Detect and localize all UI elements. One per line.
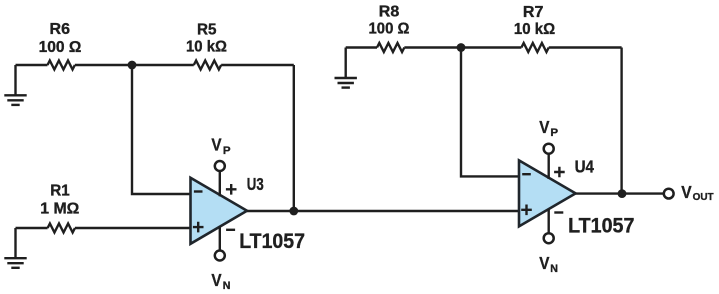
ground [335, 48, 357, 88]
node D [618, 189, 627, 198]
wire [132, 65, 191, 194]
svg-text:U3: U3 [247, 174, 264, 194]
svg-text:LT1057: LT1057 [568, 214, 634, 237]
svg-text:N: N [550, 263, 558, 275]
node C [457, 43, 466, 52]
wire [16, 227, 48, 229]
wire [549, 46, 622, 48]
svg-text:V: V [681, 182, 692, 202]
wire [221, 64, 294, 66]
wire [620, 48, 622, 194]
VP pin (U4) [539, 117, 558, 179]
resistor R7 [514, 4, 555, 52]
wire [346, 46, 377, 48]
resistor R6 [39, 21, 82, 70]
resistor R1 [40, 183, 79, 233]
svg-text:100 Ω: 100 Ω [39, 39, 82, 56]
svg-text:P: P [550, 127, 558, 139]
svg-text:100 Ω: 100 Ω [369, 20, 410, 37]
op-amp U4 [519, 157, 634, 238]
node B [289, 207, 298, 216]
wire [461, 48, 519, 177]
wire [247, 210, 519, 212]
svg-text:R8: R8 [379, 3, 400, 20]
VP pin (U3) [211, 135, 230, 197]
VN pin (U4) [539, 209, 558, 275]
node A [128, 61, 137, 70]
output terminal VOUT [664, 182, 714, 203]
svg-text:10 kΩ: 10 kΩ [186, 39, 227, 56]
svg-text:R6: R6 [50, 21, 71, 38]
wire [404, 46, 521, 48]
wire [293, 65, 295, 211]
svg-text:R1: R1 [50, 183, 70, 200]
ground [4, 228, 26, 268]
ground [4, 65, 26, 105]
wire [576, 192, 664, 194]
svg-text:10 kΩ: 10 kΩ [514, 21, 555, 38]
wire [75, 64, 194, 66]
resistor R5 [186, 22, 227, 70]
svg-text:N: N [223, 280, 231, 292]
wire [75, 227, 191, 229]
svg-text:LT1057: LT1057 [239, 230, 305, 253]
svg-text:U4: U4 [575, 157, 595, 177]
svg-text:V: V [211, 135, 221, 155]
svg-text:R5: R5 [197, 22, 217, 39]
svg-text:P: P [223, 145, 231, 157]
svg-text:OUT: OUT [693, 191, 715, 203]
svg-text:V: V [539, 117, 549, 137]
wire [16, 64, 48, 66]
svg-text:V: V [539, 253, 549, 273]
svg-text:R7: R7 [523, 4, 544, 21]
VN pin (U3) [211, 226, 230, 292]
svg-text:V: V [211, 270, 221, 290]
svg-text:1 MΩ: 1 MΩ [40, 200, 79, 217]
op-amp U3 [191, 174, 306, 253]
resistor R8 [369, 3, 410, 52]
